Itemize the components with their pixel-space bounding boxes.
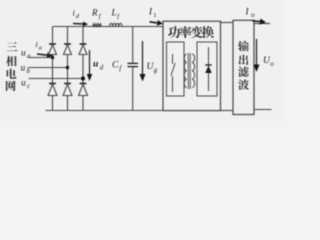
label: 三相电网 (three-phase grid) <box>6 42 17 91</box>
resistor R_f <box>93 24 102 27</box>
svg-text:u: u <box>21 79 26 89</box>
wire: capacitor branch lower <box>132 67 134 111</box>
wire: bridge column 2 <box>67 27 69 45</box>
switch (inverter device) <box>171 54 175 92</box>
svg-text:o: o <box>270 60 274 68</box>
transformer core <box>188 53 190 89</box>
label: 输出滤波 (vertical) <box>238 41 249 90</box>
capacitor C_f <box>128 63 139 66</box>
label i_d <box>73 8 80 21</box>
wire: column 3 midsection <box>82 55 84 85</box>
svg-text:L: L <box>111 8 117 18</box>
sub-block: inverter box <box>167 42 185 96</box>
wire: column 1 to bottom rail <box>52 96 54 111</box>
sub-block: output rectifier box <box>197 42 217 96</box>
diode VD2 (upper) <box>64 44 72 55</box>
voltage arrow U_o (output voltage) <box>256 39 258 66</box>
svg-text:d: d <box>100 64 104 72</box>
current arrow I_o <box>253 20 261 23</box>
transformer T primary winding <box>184 54 187 88</box>
wire: phase c from source to bridge column 3 <box>29 78 84 80</box>
svg-text:i: i <box>36 40 38 49</box>
junction node phase c <box>81 76 85 80</box>
wire: output top <box>254 23 270 25</box>
wire: bridge column 3 <box>82 27 84 45</box>
diode VD4 (lower) <box>48 84 57 96</box>
svg-text:g: g <box>154 66 158 74</box>
current arrow i_d on top rail <box>73 23 83 26</box>
label u_a <box>21 49 31 61</box>
wire: power block to filter block (top) <box>221 22 234 24</box>
diode VD7 (output rectifier) <box>205 47 212 91</box>
svg-text:o: o <box>251 11 255 19</box>
transformer T secondary winding <box>192 54 195 88</box>
block: 功率变换 (power conversion) outer box <box>163 21 221 110</box>
label C_f <box>112 61 122 73</box>
svg-text:1: 1 <box>153 12 156 19</box>
label u_d <box>93 60 104 72</box>
svg-text:u: u <box>93 60 98 70</box>
voltage arrow U_g (dc link voltage) <box>142 41 144 75</box>
label i_a <box>36 40 43 52</box>
junction node phase a <box>51 56 54 59</box>
wire: top rail of rectifier bridge <box>53 26 164 28</box>
diode VD5 (lower) <box>63 84 72 96</box>
diode VD6 (lower) <box>79 84 88 96</box>
inductor L_f <box>110 23 122 26</box>
label: 功率变换 <box>168 26 214 38</box>
label U_o <box>263 56 274 68</box>
svg-text:C: C <box>112 61 119 71</box>
label U_g <box>147 62 158 74</box>
label I_1 <box>148 7 157 20</box>
diode VD3 (upper) <box>79 44 87 55</box>
label u_b <box>21 64 31 76</box>
svg-text:a: a <box>27 52 31 60</box>
svg-text:u: u <box>21 64 26 74</box>
label L_f <box>111 8 121 21</box>
junction node phase b <box>66 66 69 69</box>
label u_c <box>21 79 31 91</box>
svg-text:R: R <box>91 8 98 18</box>
wire: power block to filter block (bottom) <box>221 110 234 112</box>
svg-text:a: a <box>39 45 42 52</box>
label I_o <box>245 7 256 20</box>
wire: bridge column 1 <box>52 27 54 45</box>
wire: capacitor branch upper <box>132 27 134 64</box>
wire: output bottom <box>254 109 272 111</box>
svg-text:u: u <box>21 49 26 59</box>
wire: phase a from source to bridge column 1 <box>29 57 53 59</box>
block: 输出滤波 (output filter) box <box>233 20 254 114</box>
label R_f <box>91 8 102 21</box>
current arrow i_a <box>37 54 47 55</box>
current arrow I_1 <box>150 22 158 23</box>
wire: column 1 midsection <box>52 55 54 85</box>
diode VD1 (upper) <box>49 44 57 55</box>
wire: bottom rail <box>46 110 164 112</box>
wire: column 2 midsection <box>67 55 69 85</box>
wire: column 2 to bottom rail <box>67 96 69 111</box>
svg-text:b: b <box>27 67 31 75</box>
wire: column 3 to bottom rail <box>82 96 84 111</box>
voltage arrow u_d (rectifier output) <box>89 50 91 75</box>
wire: phase b from source to bridge column 2 <box>28 67 68 69</box>
